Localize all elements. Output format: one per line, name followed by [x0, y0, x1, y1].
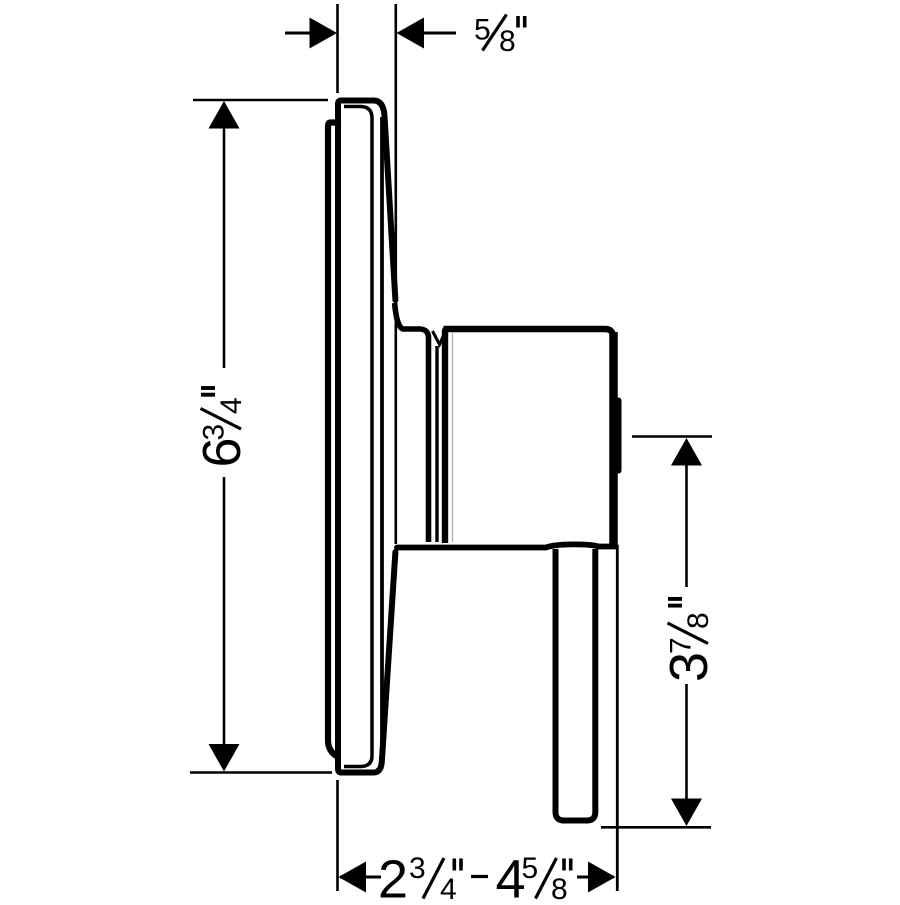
dim 6-3/4 bottom extension line: [190, 771, 332, 774]
svg-text:3: 3: [659, 652, 719, 682]
dim 5/8 left leader: [285, 32, 312, 35]
arrowhead 6-3/4 down: [209, 744, 240, 772]
arrowhead 3-7/8 up: [671, 438, 702, 466]
dim 3-7/8 bottom extension line: [601, 826, 711, 829]
arrowhead 6-3/4 up: [209, 101, 240, 129]
svg-text:4: 4: [440, 873, 457, 900]
svg-text:8: 8: [551, 873, 568, 900]
dim 6-3/4 line upper: [223, 103, 226, 368]
escutcheon front flange outline: [338, 101, 395, 773]
escutcheon crease line: [380, 117, 384, 757]
svg-text:3: 3: [198, 424, 231, 441]
valve body right edge thick: [609, 332, 618, 546]
valve body outline: [445, 329, 613, 543]
body inner left faint line: [452, 333, 454, 542]
label 6-3/4 inch rotated: [192, 388, 252, 468]
dim 5/8 left extension line: [336, 4, 339, 93]
dim 3-7/8 line lower: [685, 684, 688, 823]
arrowhead 3-7/8 down: [671, 799, 702, 827]
dim 3-7/8 top extension line: [632, 435, 712, 438]
escutcheon inner ring line: [344, 107, 372, 767]
label 5/8 inch: [474, 14, 525, 59]
sleeve-body notch: [433, 331, 446, 345]
cartridge stop bump: [612, 398, 622, 474]
valve sleeve neck: [395, 303, 429, 542]
svg-text:7: 7: [665, 637, 698, 654]
svg-text:8: 8: [499, 25, 516, 58]
handle lever: [556, 549, 596, 821]
svg-text:3: 3: [409, 852, 426, 885]
dim bottom right stub: [577, 876, 614, 879]
dim 3-7/8 line upper: [685, 440, 688, 587]
svg-text:6: 6: [192, 437, 252, 467]
arrowhead bottom right: [588, 862, 616, 893]
dim 5/8 right leader: [422, 32, 456, 35]
arrowhead bottom left: [339, 862, 367, 893]
dim bottom left extension line: [336, 780, 339, 891]
escutcheon back plate: [328, 123, 338, 756]
sleeve groove line: [435, 346, 438, 542]
dim 6-3/4 top extension line: [193, 99, 328, 102]
arrowhead 5/8 pointing left: [397, 18, 425, 49]
svg-text:8: 8: [682, 612, 715, 629]
svg-text:5: 5: [522, 852, 539, 885]
svg-text:2: 2: [378, 850, 408, 901]
valve body bottom edge: [397, 544, 616, 547]
dim 6-3/4 line lower: [223, 477, 226, 769]
svg-text:4: 4: [215, 397, 248, 414]
arrowhead 5/8 pointing right: [310, 18, 338, 49]
dim bottom left stub: [340, 876, 381, 879]
label 2-3/4 to 4-5/8 inch: [378, 850, 571, 905]
label 3-7/8 inch rotated: [659, 599, 719, 682]
extension line 5/8 right / flange silhouette: [394, 4, 397, 544]
dim bottom right extension line: [616, 548, 619, 891]
